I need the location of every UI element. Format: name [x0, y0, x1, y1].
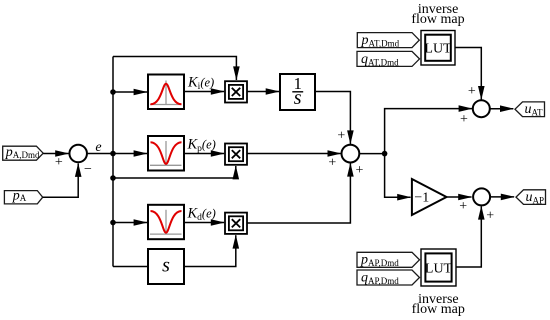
lookup table LUT (AP)	[421, 249, 456, 286]
node junction dot row3	[110, 220, 116, 226]
derivative block s	[148, 249, 184, 284]
wire pA to summer bottom	[43, 163, 82, 197]
wire e from summer to fuzzy Kp box	[87, 150, 148, 157]
wire bus to fuzzy Kd box	[113, 219, 148, 226]
input tag pA	[4, 188, 42, 204]
wire Kd box to multiplier 3	[184, 219, 225, 226]
wire bus to s box	[113, 266, 148, 268]
wire multiplier 2 to summer S2	[247, 150, 342, 157]
svg-text:+: +	[328, 156, 336, 171]
wire S4 to uAP tag	[490, 194, 515, 201]
input tag qAP,Dmd	[357, 270, 420, 286]
wire bus to fuzzy Ki box	[113, 89, 148, 96]
node junction dot mult2 feed	[110, 175, 116, 181]
summing junction S2	[342, 145, 360, 163]
fuzzy membership box Kp	[148, 136, 184, 171]
svg-text:LUT: LUT	[425, 262, 453, 277]
wire node down to inverter	[385, 154, 412, 201]
integrator block 1/s	[280, 74, 315, 110]
node junction dot row1	[110, 89, 116, 95]
svg-text:+: +	[356, 163, 364, 178]
svg-text:+: +	[337, 129, 345, 144]
multiplier 1	[225, 81, 247, 102]
svg-text:−1: −1	[414, 191, 429, 206]
wire Ki box to multiplier 1	[184, 88, 225, 95]
output tag uAP	[516, 190, 546, 206]
output tag uAT	[515, 102, 545, 118]
svg-text:flow map: flow map	[412, 302, 465, 317]
input tag pAP,Dmd	[357, 252, 420, 268]
wire s box to multiplier 3 bottom	[184, 235, 239, 267]
wire integrator to summer S2 top	[315, 92, 354, 145]
input tag pA,Dmd	[3, 145, 44, 160]
lookup table LUT (AT)	[421, 31, 455, 66]
svg-text:LUT: LUT	[424, 42, 452, 57]
wire LUT to S4 bottom	[456, 206, 485, 267]
summing junction S3	[473, 100, 490, 117]
node junction dot after S2	[382, 151, 388, 157]
wire multiplier 3 to summer S2 bottom	[247, 163, 354, 223]
summing junction S1	[69, 145, 87, 163]
svg-text:+: +	[486, 209, 494, 224]
svg-text:+: +	[459, 199, 467, 214]
wire S3 to uAT tag	[490, 105, 514, 112]
svg-text:s: s	[294, 87, 302, 109]
svg-text:s: s	[162, 254, 170, 276]
wire e bus vertical	[112, 57, 114, 267]
wire inverter to S4	[447, 194, 472, 201]
wire Kp box to multiplier 2	[184, 150, 225, 157]
svg-text:−: −	[84, 162, 92, 177]
wire pA,Dmd to summer	[43, 150, 69, 157]
wire node up to S3	[385, 105, 473, 153]
wire multiplier 1 to integrator	[247, 88, 280, 95]
summing junction S4	[473, 188, 490, 205]
wire e bypass to multiplier 1	[113, 57, 240, 81]
fuzzy membership box Ki	[148, 75, 184, 110]
svg-text:+: +	[55, 155, 63, 170]
svg-text:+: +	[460, 112, 468, 127]
input tag pAT,Dmd	[357, 33, 419, 49]
svg-text:Ki(e): Ki(e)	[187, 75, 214, 93]
node junction dot e row	[110, 151, 116, 157]
inverter gain -1	[412, 179, 447, 215]
wire bus to multiplier 2 bottom	[113, 165, 239, 179]
fuzzy membership box Kd	[148, 205, 184, 239]
svg-text:flow map: flow map	[411, 12, 464, 27]
multiplier 2	[225, 144, 247, 165]
wire LUT to S3 top	[455, 48, 485, 101]
input tag qAT,Dmd	[357, 51, 420, 67]
svg-text:+: +	[468, 84, 476, 99]
multiplier 3	[225, 213, 247, 234]
wire S2 to node	[359, 153, 384, 155]
